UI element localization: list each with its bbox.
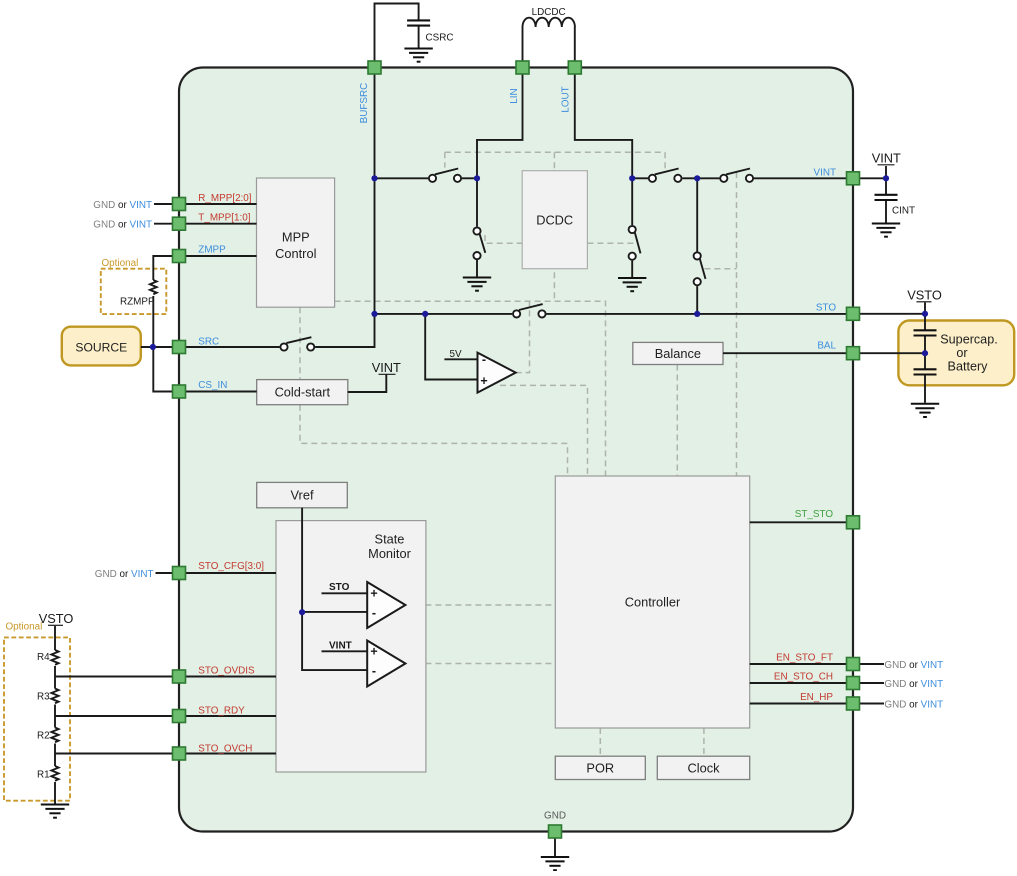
Vref block — [257, 482, 348, 507]
svg-text:Controller: Controller — [625, 595, 681, 610]
ground CINT — [872, 224, 900, 237]
node rail S6 — [694, 311, 700, 317]
wire S5 to VINT pin — [754, 177, 853, 179]
wire supercap to ground — [924, 375, 926, 403]
wire node to S6 — [696, 178, 698, 251]
svg-text:Optional: Optional — [6, 622, 43, 633]
ground CSRC — [404, 49, 432, 62]
control stub to switch S1 — [444, 152, 446, 167]
wire S1 to LIN node — [462, 177, 477, 179]
node LIN — [474, 175, 480, 181]
pin R_MPP — [173, 198, 186, 211]
Cold-start block — [257, 380, 348, 405]
wire LIN to LDCDC — [522, 27, 524, 62]
svg-text:GND or VINT: GND or VINT — [884, 660, 943, 671]
control dashed MPP to controller — [335, 301, 606, 476]
svg-text:-: - — [372, 664, 376, 678]
control dashed to DCDC right — [587, 242, 638, 244]
svg-text:STO_OVDIS: STO_OVDIS — [198, 666, 255, 677]
svg-text:RZMPP: RZMPP — [120, 297, 155, 308]
wire STO rail right to STO pin — [546, 313, 853, 315]
wire Vref node to comp2 minus — [302, 612, 367, 670]
capacitor supercap top — [914, 330, 937, 335]
svg-text:STO_CFG[3:0]: STO_CFG[3:0] — [198, 561, 264, 572]
wire CSRC to ground — [418, 26, 420, 48]
wire CINT to ground — [885, 201, 887, 223]
node VSTO external — [922, 311, 928, 317]
pin BAL — [847, 347, 860, 360]
svg-text:VSTO: VSTO — [907, 288, 942, 303]
svg-text:R4: R4 — [37, 652, 50, 663]
control dashed state monitor comp1 output — [405, 604, 555, 606]
control stub switch S6 — [704, 268, 736, 270]
control dashed cold-start to controller — [300, 405, 568, 476]
wire VINT row left — [375, 177, 429, 179]
Supercap or Battery box — [898, 321, 1014, 386]
pin EN_HP — [847, 697, 860, 710]
pin STO_OVCH — [173, 747, 186, 760]
DCDC block — [522, 171, 587, 269]
svg-text:T_MPP[1:0]: T_MPP[1:0] — [198, 213, 250, 224]
Balance block — [633, 342, 723, 364]
wire CS_IN to Cold-start — [179, 391, 257, 393]
pin STO — [847, 307, 860, 320]
wire controller to ST_STO pin — [750, 521, 853, 523]
ground supercap — [911, 404, 939, 417]
pin LOUT — [568, 61, 581, 74]
svg-text:Control: Control — [275, 246, 316, 261]
svg-text:GND or VINT: GND or VINT — [93, 220, 152, 231]
svg-text:5V: 5V — [450, 349, 462, 360]
pin ZMPP — [173, 250, 186, 263]
pin STO_CFG — [173, 567, 186, 580]
wire 5V to comparator minus — [444, 358, 477, 360]
control dashed DCDC top-bottom — [553, 152, 555, 301]
svg-text:GND or VINT: GND or VINT — [95, 569, 154, 580]
svg-text:LDCDC: LDCDC — [532, 7, 566, 18]
svg-text:VSTO: VSTO — [39, 611, 74, 626]
resistor R2 — [51, 728, 58, 743]
resistor RZMPP — [150, 280, 157, 294]
wire BAL row — [723, 352, 925, 354]
wire R3-R2 — [54, 705, 56, 728]
wire GND-or-VINT stub to T_MPP pin — [154, 223, 179, 225]
svg-text:GND or VINT: GND or VINT — [93, 200, 152, 211]
wire ZMPP to RZMPP — [153, 256, 179, 280]
wire controller to EN_HP pin — [750, 703, 853, 705]
svg-text:-: - — [482, 353, 486, 367]
net VINT external overbar — [878, 164, 895, 166]
wire VINT net stem — [885, 166, 887, 195]
pin STO_OVDIS — [173, 670, 186, 683]
svg-text:GND or VINT: GND or VINT — [884, 679, 943, 690]
switch S4 — [649, 169, 682, 182]
svg-text:STO_RDY: STO_RDY — [198, 706, 245, 717]
svg-text:LOUT: LOUT — [561, 86, 572, 112]
wire node to CS_IN pin — [153, 347, 179, 392]
wire Cold-start to VINT — [348, 375, 387, 393]
pin SRC — [173, 341, 186, 354]
svg-text:SOURCE: SOURCE — [75, 341, 127, 355]
wire EN_HP stub — [853, 703, 884, 705]
wire LOUT pin down to node — [575, 73, 632, 178]
wire SRC to S8 — [179, 346, 280, 348]
svg-text:DCDC: DCDC — [536, 213, 573, 228]
svg-text:BUFSRC: BUFSRC — [359, 83, 370, 124]
svg-text:+: + — [480, 374, 487, 388]
inductor LDCDC — [523, 18, 575, 27]
wire ZMPP to MPP Control — [179, 255, 257, 257]
ground S2 — [463, 278, 491, 291]
wire VINT to comp2 plus — [322, 650, 368, 652]
svg-text:EN_STO_CH: EN_STO_CH — [774, 672, 833, 683]
POR block — [555, 756, 645, 779]
wire GND-or-VINT stub to R_MPP pin — [154, 203, 179, 205]
wire supercap middle — [924, 336, 926, 370]
svg-text:-: - — [372, 606, 376, 620]
ground GND pin — [541, 857, 569, 870]
wire S2 branch down — [476, 178, 478, 226]
wire VSTO net stem — [924, 303, 926, 331]
Clock block — [657, 756, 749, 779]
wire R_MPP to MPP Control — [179, 203, 257, 205]
svg-text:R2: R2 — [37, 731, 50, 742]
pin GND — [549, 825, 562, 838]
pin BUFSRC — [368, 61, 381, 74]
node BAL supercap — [922, 350, 928, 356]
svg-text:STO: STO — [816, 303, 836, 314]
pin CS_IN — [173, 385, 186, 398]
resistor R3 — [51, 689, 58, 704]
wire GND pin to ground — [554, 838, 556, 856]
wire SOURCE to SRC pin — [141, 346, 179, 348]
svg-text:VINT: VINT — [872, 151, 901, 166]
svg-text:Vref: Vref — [291, 488, 314, 503]
net VINT cold-start overbar — [379, 373, 396, 375]
MPP Control block — [257, 178, 335, 307]
svg-text:VINT: VINT — [329, 641, 352, 652]
switch S7 — [513, 304, 546, 317]
wire STO_OVDIS row — [55, 676, 276, 678]
wire STO to comp1 plus — [322, 592, 368, 594]
svg-text:+: + — [370, 587, 377, 601]
node Vref — [299, 609, 305, 615]
wire STO_RDY row — [55, 715, 276, 717]
wire R4-R3 — [54, 666, 56, 689]
capacitor supercap bottom — [914, 369, 937, 374]
control dashed below comparator to controller — [500, 385, 588, 476]
control dashed balance to controller — [676, 365, 678, 476]
svg-text:+: + — [370, 645, 377, 659]
wire S6 to STO rail — [696, 286, 698, 314]
wire S4 to node — [682, 177, 697, 179]
svg-text:CS_IN: CS_IN — [198, 380, 227, 391]
control dashed controller to Clock — [703, 728, 705, 756]
node VINT external — [883, 175, 889, 181]
wire EN_STO_FT stub — [853, 663, 884, 665]
wire R1 to ground — [54, 782, 56, 804]
ground S3 — [618, 278, 646, 291]
capacitor CINT — [875, 195, 898, 200]
wire controller to EN_STO_FT pin — [750, 663, 853, 665]
pin VINT — [847, 172, 860, 185]
svg-text:R_MPP[2:0]: R_MPP[2:0] — [198, 193, 251, 204]
State Monitor block — [276, 521, 426, 772]
wire Vref down to node — [301, 508, 303, 612]
switch S8 — [280, 337, 314, 350]
node SOURCE junction — [150, 344, 156, 350]
SOURCE box — [62, 327, 141, 366]
pin EN_STO_CH — [847, 677, 860, 690]
svg-text:R1: R1 — [37, 770, 50, 781]
wire Vref node to comp1 minus — [302, 611, 367, 613]
svg-text:BAL: BAL — [817, 341, 836, 352]
wire node to S5 — [697, 177, 719, 179]
op-amp 5V comparator — [478, 353, 516, 393]
node rail comparator — [422, 311, 428, 317]
svg-text:STO_OVCH: STO_OVCH — [198, 744, 252, 755]
wire LIN node up to LIN pin — [477, 73, 523, 178]
wire rail node to comparator plus — [425, 314, 477, 380]
wire S3 to ground — [631, 261, 633, 277]
node rail BUFSRC — [371, 311, 377, 317]
control dashed comparator 5V output — [516, 301, 530, 372]
wire STO pin to VSTO node — [853, 313, 925, 315]
svg-text:Balance: Balance — [655, 346, 701, 361]
svg-text:EN_HP: EN_HP — [800, 692, 833, 703]
op-amp comparator VINT — [367, 641, 405, 687]
pin T_MPP — [173, 217, 186, 230]
wire VSTO divider stem — [54, 626, 56, 650]
svg-text:CSRC: CSRC — [426, 33, 454, 44]
wire R2-R1 — [54, 744, 56, 767]
node LOUT — [629, 175, 635, 181]
control dashed controller to POR — [599, 728, 601, 756]
svg-text:POR: POR — [586, 761, 614, 776]
svg-text:Supercap.: Supercap. — [940, 333, 997, 347]
pin ST_STO — [847, 516, 860, 529]
node BUFSRC top — [371, 175, 377, 181]
resistor R1 — [51, 766, 58, 781]
wire STO_OVCH row — [55, 753, 276, 755]
net VSTO external overbar — [917, 301, 932, 303]
node VINT row — [694, 175, 700, 181]
switch S3 — [629, 226, 641, 260]
switch S6 — [694, 252, 706, 285]
control dashed to DCDC left — [485, 235, 523, 243]
wire BUFSRC vertical — [374, 73, 376, 314]
svg-text:or: or — [956, 346, 967, 360]
wire S3 branch down — [631, 178, 633, 225]
switch S1 — [429, 169, 461, 182]
IC body — [179, 68, 853, 832]
svg-text:EN_STO_FT: EN_STO_FT — [776, 653, 833, 664]
wire controller to EN_STO_CH pin — [750, 682, 853, 684]
svg-text:ZMPP: ZMPP — [198, 245, 226, 256]
svg-text:ST_STO: ST_STO — [795, 509, 834, 520]
Optional dashed box RZMPP — [101, 269, 167, 314]
svg-text:VINT: VINT — [372, 360, 401, 375]
control dashed state monitor comp2 output — [405, 663, 555, 665]
pin LIN — [516, 61, 529, 74]
wire RZMPP to SOURCE node — [152, 296, 154, 347]
svg-text:GND: GND — [544, 811, 566, 822]
control dashed rail top — [445, 151, 665, 153]
resistor R4 — [51, 650, 58, 665]
wire EN_STO_CH stub — [853, 682, 884, 684]
svg-text:CINT: CINT — [892, 206, 915, 217]
net VSTO divider overbar — [48, 624, 63, 626]
svg-text:Battery: Battery — [948, 360, 989, 374]
svg-text:SRC: SRC — [198, 337, 219, 348]
wire VINT pin to CINT — [853, 177, 886, 179]
svg-text:Clock: Clock — [688, 761, 721, 776]
Optional dashed box divider — [4, 637, 70, 800]
svg-text:GND or VINT: GND or VINT — [884, 699, 943, 710]
control stub to switch S4 — [664, 152, 666, 169]
wire BUFSRC to CSRC — [375, 4, 419, 63]
op-amp comparator STO — [367, 582, 405, 628]
pin EN_STO_FT — [847, 658, 860, 671]
wire T_MPP to MPP Control — [179, 223, 257, 225]
pin STO_RDY — [173, 710, 186, 723]
svg-text:State: State — [375, 532, 405, 547]
svg-text:Cold-start: Cold-start — [275, 385, 331, 400]
capacitor CSRC — [407, 20, 430, 25]
switch S2 — [473, 227, 485, 259]
svg-text:STO: STO — [329, 582, 350, 593]
wire STO_CFG to State Monitor — [156, 572, 277, 574]
svg-text:LIN: LIN — [509, 88, 520, 103]
svg-text:VINT: VINT — [814, 168, 837, 179]
svg-text:R3: R3 — [37, 692, 50, 703]
Controller block — [555, 476, 749, 728]
svg-text:Monitor: Monitor — [368, 546, 411, 561]
control dashed MPP bottom to cold-start — [299, 307, 301, 379]
wire LOUT node to S4 — [632, 177, 648, 179]
wire S2 to ground — [476, 260, 478, 277]
wire LOUT to LDCDC — [574, 27, 576, 62]
ground divider — [41, 805, 69, 818]
wire S8 to rail — [315, 314, 374, 347]
svg-text:Optional: Optional — [102, 258, 139, 269]
wire STO rail left — [375, 313, 513, 315]
svg-text:MPP: MPP — [282, 230, 310, 245]
switch S5 — [720, 169, 753, 182]
control dashed long vertical to controller — [736, 172, 738, 476]
